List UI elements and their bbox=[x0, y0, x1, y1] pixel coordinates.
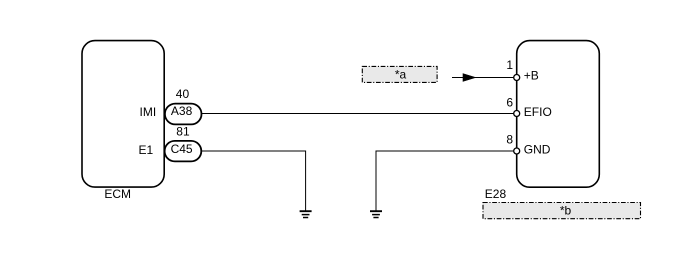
svg-text:A38: A38 bbox=[171, 104, 193, 118]
svg-text:*b: *b bbox=[560, 204, 572, 218]
svg-text:EFIO: EFIO bbox=[524, 105, 552, 119]
wire into +B pin 1 bbox=[452, 77, 514, 79]
connector oval C45 bbox=[165, 141, 202, 162]
svg-text:GND: GND bbox=[524, 142, 551, 156]
noise filter box *a bbox=[362, 66, 437, 82]
ground G1 bbox=[300, 211, 312, 217]
svg-text:+B: +B bbox=[524, 68, 539, 82]
svg-text:E1: E1 bbox=[139, 143, 154, 157]
label box *b bbox=[483, 203, 641, 219]
connector oval A38 bbox=[165, 104, 202, 125]
arrowhead on +B wire bbox=[463, 74, 476, 82]
svg-text:*a: *a bbox=[395, 68, 407, 82]
ECM block bbox=[82, 41, 164, 188]
pin 6 EFIO bbox=[506, 95, 552, 119]
svg-text:40: 40 bbox=[176, 87, 190, 101]
E28 block bbox=[517, 41, 600, 188]
svg-text:E28: E28 bbox=[485, 187, 507, 201]
pin 8 GND bbox=[506, 132, 550, 156]
svg-text:C45: C45 bbox=[171, 142, 193, 156]
svg-text:ECM: ECM bbox=[104, 187, 131, 201]
svg-text:81: 81 bbox=[176, 125, 190, 139]
wire GND pin 8 to ground G2 bbox=[376, 151, 514, 211]
svg-text:8: 8 bbox=[506, 132, 513, 146]
ground G2 bbox=[370, 211, 382, 217]
svg-text:1: 1 bbox=[506, 58, 513, 72]
wire A38 to EFIO bbox=[200, 113, 514, 115]
wire C45 to ground G1 bbox=[200, 151, 306, 211]
pin 1 +B bbox=[506, 58, 539, 82]
svg-text:IMI: IMI bbox=[140, 105, 157, 119]
svg-text:6: 6 bbox=[506, 95, 513, 109]
